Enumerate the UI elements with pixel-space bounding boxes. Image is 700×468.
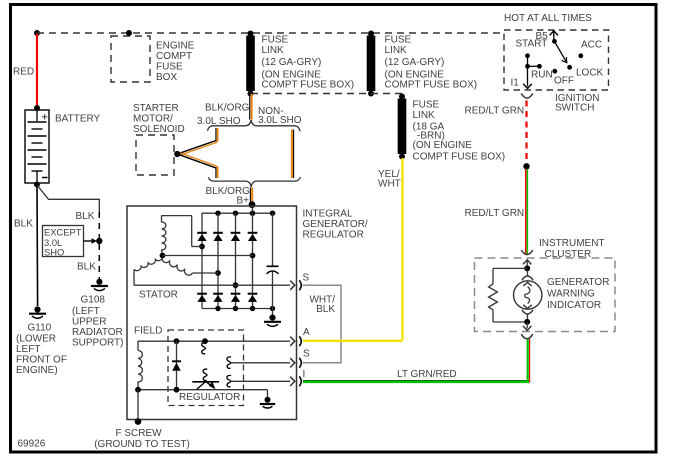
- label regulator: [179, 392, 240, 403]
- svg-text:CLUSTER: CLUSTER: [545, 249, 592, 260]
- svg-text:RADIATOR: RADIATOR: [72, 327, 123, 338]
- svg-text:SWITCH: SWITCH: [555, 103, 594, 114]
- node stator phase taps: [199, 244, 255, 289]
- svg-text:BLK: BLK: [77, 262, 96, 273]
- node B+: [249, 201, 256, 208]
- wire rectifier bottom bus: [202, 306, 275, 311]
- brace harness split lower: [208, 177, 300, 187]
- svg-text:3.0L SHO: 3.0L SHO: [258, 115, 302, 126]
- svg-text:LINK: LINK: [262, 45, 285, 56]
- svg-text:69926: 69926: [18, 439, 46, 450]
- wire BLK/ORG to B+: [206, 186, 253, 207]
- wire diode column 2: [217, 213, 219, 308]
- svg-text:COMPT: COMPT: [156, 51, 192, 62]
- wire BLK battery to junction: [37, 185, 99, 222]
- stator winding W1: [162, 216, 203, 256]
- wire rectifier top bus: [202, 211, 276, 216]
- svg-text:FRONT OF: FRONT OF: [16, 355, 67, 366]
- svg-text:(12 GA-GRY): (12 GA-GRY): [385, 57, 445, 68]
- svg-text:RUN: RUN: [531, 70, 553, 81]
- svg-text:STARTER: STARTER: [133, 103, 179, 114]
- svg-text:ENGINE): ENGINE): [16, 365, 58, 376]
- diode D3: [231, 233, 241, 241]
- wire BLK dashed junction to G108: [77, 244, 99, 279]
- svg-text:INSTRUMENT: INSTRUMENT: [539, 238, 605, 249]
- svg-text:COMPT FUSE BOX): COMPT FUSE BOX): [413, 152, 506, 163]
- svg-text:FUSE: FUSE: [262, 35, 289, 46]
- wire LT GRN/RED I to cluster: [303, 339, 530, 383]
- svg-text:BLK: BLK: [316, 304, 335, 315]
- wire B5 feed arrow: [550, 31, 558, 41]
- node ACC contact: [578, 53, 583, 58]
- lamp generator warning indicator: [514, 271, 610, 319]
- fuse link F1 (12 GA-GRY): [246, 31, 354, 97]
- fuse link F2 (12 GA-GRY): [367, 31, 477, 97]
- svg-text:LINK: LINK: [413, 110, 436, 121]
- svg-text:COMPT FUSE BOX): COMPT FUSE BOX): [262, 80, 355, 91]
- svg-text:S: S: [303, 273, 310, 284]
- wire diode column 1: [201, 213, 203, 308]
- fuse link F3 (18 GA-BRN): [398, 94, 505, 163]
- hot-at-all-times dashed bus: [37, 32, 504, 34]
- wire diode column 3: [235, 213, 237, 308]
- svg-text:LOCK: LOCK: [576, 68, 604, 79]
- svg-text:RED: RED: [13, 67, 34, 78]
- wire capacitor to ground: [272, 309, 274, 316]
- instrument cluster box: [475, 238, 616, 331]
- ignition switch SW1: [504, 13, 609, 114]
- svg-text:S: S: [303, 349, 310, 360]
- connector ignition exit: [521, 94, 533, 99]
- node B5 contact: [552, 39, 557, 44]
- svg-text:INDICATOR: INDICATOR: [547, 300, 601, 311]
- svg-text:LEFT: LEFT: [16, 344, 40, 355]
- svg-text:REGULATOR: REGULATOR: [179, 392, 240, 403]
- resistor R1 cluster: [489, 268, 528, 322]
- diode D8: [248, 294, 258, 302]
- node splice RED/LT GRN: [523, 163, 529, 169]
- node stator center: [160, 253, 166, 259]
- svg-text:G110: G110: [28, 323, 52, 334]
- svg-text:I: I: [303, 369, 306, 380]
- svg-text:BLK/ORG: BLK/ORG: [205, 103, 250, 114]
- except 3.0L SHO callout: [43, 226, 98, 258]
- wire BLK/ORG from F1: [197, 94, 302, 127]
- wire ignition wiper B5 to LOCK: [554, 41, 566, 62]
- svg-text:STATOR: STATOR: [139, 290, 178, 301]
- wire diode column 4 B+: [252, 206, 254, 309]
- stator winding W3: [139, 256, 218, 301]
- wire to terminal S lower: [231, 362, 290, 364]
- svg-text:+: +: [42, 111, 48, 123]
- capacitor C1: [267, 213, 279, 308]
- engine compt fuse box: [111, 30, 195, 83]
- svg-text:BLK: BLK: [76, 211, 95, 222]
- svg-text:ENGINE: ENGINE: [156, 41, 195, 52]
- svg-text:I1: I1: [511, 78, 520, 89]
- node solenoid junction: [174, 151, 180, 157]
- svg-text:INTEGRAL: INTEGRAL: [303, 209, 353, 220]
- terminal I: [290, 369, 305, 386]
- svg-text:BOX: BOX: [156, 72, 177, 83]
- svg-text:F SCREW: F SCREW: [115, 428, 162, 439]
- diode D6: [213, 294, 223, 302]
- wire WHT/BLK S to S: [303, 285, 341, 363]
- transistor Q1: [192, 369, 219, 390]
- diode D5: [197, 294, 207, 302]
- svg-text:BATTERY: BATTERY: [55, 114, 101, 125]
- terminal S lower: [290, 349, 310, 368]
- svg-text:GENERATOR: GENERATOR: [547, 277, 609, 288]
- label diagram number: [18, 439, 46, 450]
- wire to terminal I: [231, 380, 290, 382]
- svg-text:FUSE: FUSE: [385, 35, 412, 46]
- svg-text:FUSE: FUSE: [156, 62, 183, 73]
- svg-text:START: START: [516, 39, 548, 50]
- node lamp bottom: [524, 319, 530, 325]
- node battery positive junction: [34, 30, 40, 36]
- diode regulator DR: [172, 341, 181, 390]
- dashed bus fuse link bottoms: [251, 93, 402, 95]
- diode D7: [231, 294, 241, 302]
- regulator dashed box: [168, 330, 244, 406]
- integral generator/regulator U1 box: [127, 206, 368, 420]
- starter motor/solenoid: [133, 103, 185, 175]
- node OFF contact: [552, 69, 557, 74]
- battery BAT1: [25, 105, 101, 188]
- svg-text:(GROUND TO TEST): (GROUND TO TEST): [94, 439, 190, 450]
- svg-text:WARNING: WARNING: [547, 289, 595, 300]
- svg-text:RED/LT GRN: RED/LT GRN: [465, 106, 525, 117]
- wire BLK dashed to junction: [98, 212, 100, 238]
- svg-text:LINK: LINK: [385, 45, 408, 56]
- svg-text:SUPPORT): SUPPORT): [72, 338, 124, 349]
- svg-text:COMPT FUSE BOX): COMPT FUSE BOX): [385, 80, 478, 91]
- svg-text:SHO: SHO: [44, 246, 64, 257]
- terminal S upper: [290, 273, 309, 290]
- wire YEL/WHT F3 to A: [303, 158, 403, 341]
- wire BLK/ORG NON-3.0L SHO branch: [292, 130, 294, 179]
- connector stub on A line: [202, 342, 206, 353]
- svg-text:FUSE: FUSE: [413, 100, 440, 111]
- wire I1 output arrow: [523, 66, 531, 88]
- diode D4: [248, 233, 258, 241]
- connector cluster entry: [521, 250, 533, 255]
- svg-text:LT GRN/RED: LT GRN/RED: [397, 369, 457, 380]
- svg-text:RED/LT GRN: RED/LT GRN: [465, 208, 525, 219]
- wire field top to terminal A: [138, 338, 290, 344]
- svg-text:SOLENOID: SOLENOID: [133, 124, 185, 135]
- ground regulator: [260, 397, 275, 408]
- connector stub I: [227, 375, 231, 386]
- svg-text:BLK: BLK: [14, 219, 33, 230]
- brace harness split upper: [208, 120, 301, 131]
- terminal F screw: [94, 390, 190, 451]
- connector cluster exit: [521, 334, 533, 339]
- stator winding W2: [134, 256, 163, 285]
- svg-text:HOT AT ALL TIMES: HOT AT ALL TIMES: [504, 13, 592, 24]
- wire RED battery to hot bus: [13, 34, 37, 108]
- svg-text:OFF: OFF: [554, 76, 574, 87]
- svg-text:REGULATOR: REGULATOR: [303, 230, 364, 241]
- svg-text:MOTOR/: MOTOR/: [133, 114, 173, 125]
- node except junction: [96, 238, 102, 244]
- svg-text:A: A: [303, 327, 310, 338]
- ground G110: [16, 306, 67, 376]
- wire stator center to column 4: [163, 255, 253, 257]
- wire BLK/ORG 3.0L SHO branch: [178, 128, 217, 178]
- diode D2: [213, 233, 223, 241]
- wire RED/LT GRN dashed: [465, 101, 527, 164]
- node RUN contacts: [525, 56, 542, 69]
- svg-text:G108: G108: [81, 295, 106, 306]
- svg-text:FIELD: FIELD: [134, 326, 162, 337]
- field winding L1: [134, 326, 162, 390]
- svg-text:B+: B+: [237, 196, 250, 207]
- ground G108: [72, 279, 124, 349]
- svg-text:GENERATOR/: GENERATOR/: [303, 219, 368, 230]
- wire RED/LT GRN to cluster: [465, 169, 528, 254]
- connector stub S lower: [227, 357, 231, 368]
- ground rectifier: [264, 315, 281, 327]
- wire cluster exit arrow: [523, 322, 531, 331]
- terminal A: [290, 327, 310, 346]
- svg-text:ACC: ACC: [581, 40, 602, 51]
- svg-text:UPPER: UPPER: [72, 317, 106, 328]
- node START contact: [525, 53, 530, 58]
- node LOCK contact: [567, 65, 572, 70]
- node lamp top: [524, 265, 530, 271]
- svg-text:(12 GA-GRY): (12 GA-GRY): [262, 57, 322, 68]
- wire regulator bottom: [135, 387, 267, 398]
- diode D1: [197, 233, 207, 241]
- svg-text:WHT: WHT: [378, 179, 401, 190]
- svg-text:(LOWER: (LOWER: [16, 334, 56, 345]
- wire stator to terminal S: [134, 284, 290, 286]
- wire BLK battery to G110: [14, 185, 38, 306]
- svg-text:(ON ENGINE: (ON ENGINE: [413, 140, 473, 151]
- svg-text:(LEFT: (LEFT: [72, 306, 100, 317]
- wire cluster entry arrow: [523, 260, 531, 268]
